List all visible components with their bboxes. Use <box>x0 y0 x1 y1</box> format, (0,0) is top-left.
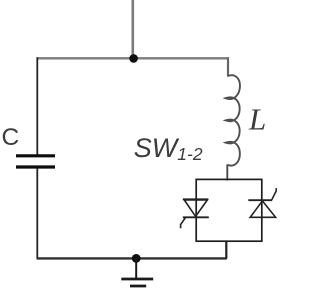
wire: bottom horizontal bus <box>37 257 227 259</box>
wire: top horizontal bus <box>37 57 229 59</box>
svg-text:C: C <box>2 124 20 151</box>
capacitor C plate 2 <box>16 165 55 168</box>
inductor L coil <box>226 75 240 165</box>
wire: right branch from top corner to inductor <box>227 57 229 76</box>
thyristor SW2 cathode bar <box>248 199 272 201</box>
thyristor SW2 triangle <box>250 201 275 217</box>
node: top junction dot <box>129 54 138 63</box>
thyristor SW1 triangle <box>184 200 207 216</box>
wire: left branch lower segment <box>36 168 38 259</box>
thyristor SW1 anode bar <box>183 198 209 200</box>
wire: top supply lead <box>132 0 135 58</box>
wire: switch box bottom lead <box>225 241 227 259</box>
wire: inductor bottom lead into switch box <box>226 165 228 181</box>
thyristor SW1 cathode bar <box>183 216 209 218</box>
switch box outline <box>196 179 262 241</box>
thyristor SW1 gate <box>181 218 186 229</box>
wire: left branch upper segment <box>36 57 38 154</box>
thyristor SW2 gate <box>272 188 277 200</box>
svg-text:SW1-2: SW1-2 <box>134 133 203 164</box>
ground <box>121 258 153 286</box>
capacitor C plate 1 <box>16 154 55 157</box>
node: bottom junction dot <box>132 254 141 263</box>
svg-text:L: L <box>248 102 266 137</box>
